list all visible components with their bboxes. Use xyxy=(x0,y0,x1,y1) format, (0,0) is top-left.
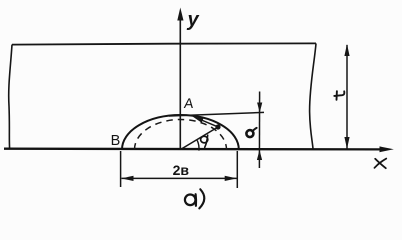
figure label a) xyxy=(185,189,204,208)
plate top edge xyxy=(12,43,316,44)
point marker (dot) on crack front xyxy=(215,124,220,129)
thickness label t (rotated, hand-drawn) xyxy=(334,91,344,100)
angle phi arc xyxy=(197,140,199,150)
thickness dimension line t xyxy=(346,45,348,149)
x-axis label (hand-drawn x) xyxy=(375,159,387,169)
thickness dim arrow up xyxy=(344,44,349,56)
x-axis arrowhead xyxy=(380,146,394,152)
crack width extension line right xyxy=(236,151,238,188)
leader arrowhead xyxy=(192,116,204,123)
depth dim arrow up (to plate surface) xyxy=(257,150,262,160)
angle label phi (hand-drawn) xyxy=(201,135,208,147)
plate right edge (break line) xyxy=(310,43,316,148)
crack width extension line left xyxy=(120,151,122,187)
depth label a (rotated, hand-drawn) xyxy=(246,128,256,137)
y-axis xyxy=(179,18,181,150)
plate left edge (break line) xyxy=(9,45,12,149)
width dimension line 2b xyxy=(122,177,237,179)
leader arrow from dot toward point A xyxy=(196,118,217,127)
crack front: solid semi-ellipse xyxy=(122,115,239,149)
width dim arrowhead left xyxy=(121,176,133,181)
svg-text:A: A xyxy=(183,95,195,111)
y-axis arrowhead xyxy=(177,8,183,21)
radius line at angle phi xyxy=(181,127,219,150)
depth dimension line a xyxy=(258,92,260,169)
extension line at depth of point A xyxy=(169,112,264,116)
svg-text:y: y xyxy=(187,9,200,31)
svg-text:B: B xyxy=(111,133,121,149)
initial crack front: dashed semi-ellipse xyxy=(135,120,227,150)
svg-text:2в: 2в xyxy=(173,162,190,178)
width dim arrowhead right xyxy=(225,176,237,181)
depth dim arrow down (to crack apex level) xyxy=(257,103,262,113)
plate bottom edge / x-axis xyxy=(4,148,381,151)
thickness dim arrow down xyxy=(344,137,349,149)
